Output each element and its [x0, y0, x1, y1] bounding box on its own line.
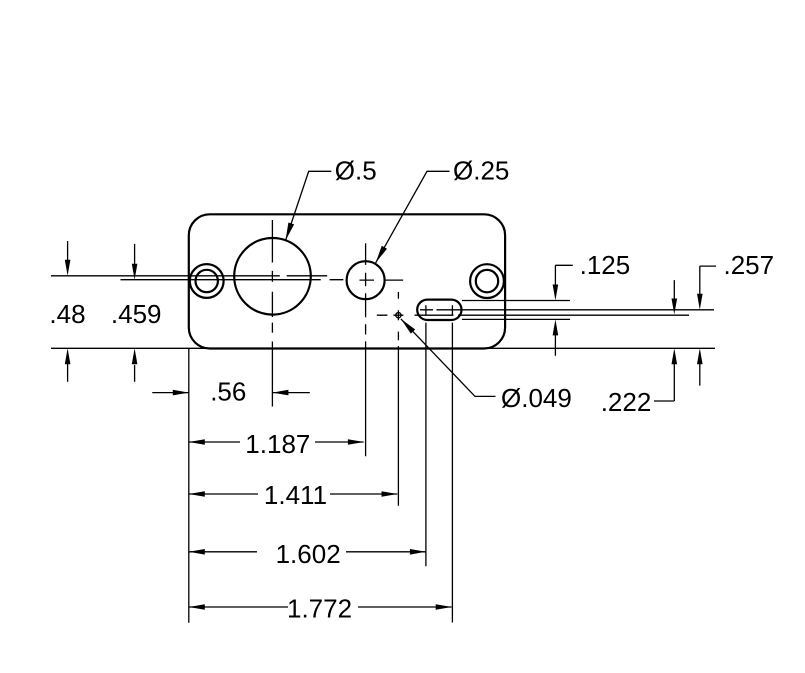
svg-text:Ø.049: Ø.049: [501, 383, 572, 413]
svg-text:Ø.25: Ø.25: [453, 156, 509, 186]
svg-text:.56: .56: [210, 377, 246, 407]
svg-text:.257: .257: [724, 250, 775, 280]
svg-text:1.602: 1.602: [276, 539, 341, 569]
svg-text:.125: .125: [580, 250, 631, 280]
svg-text:.48: .48: [49, 299, 85, 329]
svg-text:.222: .222: [601, 387, 652, 417]
svg-text:1.187: 1.187: [245, 429, 310, 459]
svg-text:1.411: 1.411: [264, 480, 327, 510]
svg-text:1.772: 1.772: [287, 594, 352, 624]
svg-text:.459: .459: [111, 299, 162, 329]
svg-text:Ø.5: Ø.5: [335, 156, 377, 186]
